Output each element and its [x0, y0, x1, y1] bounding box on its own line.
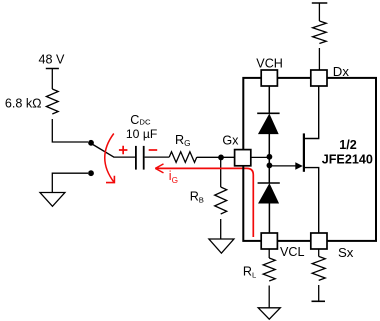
wire capacitor to RG — [145, 156, 170, 158]
svg-text:1/2: 1/2 — [339, 138, 357, 152]
JFET source lead — [304, 168, 319, 233]
svg-text:10 µF: 10 µF — [126, 127, 157, 141]
capacitor CDC right plate — [143, 146, 145, 170]
node switch upper contact dot — [88, 140, 94, 146]
wire Sx to resistor — [318, 249, 320, 256]
JFET drain lead — [304, 86, 319, 139]
svg-text:VCL: VCL — [280, 245, 305, 259]
wire VCH box to diode D1 — [268, 86, 270, 114]
wire resistor to switch node — [52, 119, 88, 142]
ground (RB) — [209, 239, 234, 253]
svg-text:JFE2140: JFE2140 — [322, 153, 373, 167]
wire D1 to gate node — [268, 134, 270, 183]
diode D1 cathode bar — [257, 112, 279, 114]
node switch lower contact dot — [88, 170, 94, 176]
node gate junction dot B — [267, 163, 273, 169]
wire RB to ground — [220, 219, 222, 239]
capacitor plus sign (red) — [119, 146, 128, 154]
resistor RG zigzag — [169, 152, 197, 163]
wire gate to JFET — [269, 165, 297, 167]
pin box Gx — [235, 150, 251, 166]
IC package rectangle 1/2 JFE2140 — [243, 78, 376, 241]
wire VCL to RL — [268, 249, 270, 258]
capacitor minus sign (red) — [149, 149, 158, 151]
red iG arrowhead — [155, 164, 163, 173]
diode D2 triangle — [259, 184, 278, 203]
wire top supply to Dx — [318, 3, 320, 21]
svg-text:6.8 kΩ: 6.8 kΩ — [5, 97, 42, 111]
node 48V rail T-bar — [46, 68, 59, 70]
node Gx junction dot — [218, 155, 224, 161]
svg-text:Sx: Sx — [338, 245, 354, 260]
wire resistor to Dx box — [318, 48, 320, 70]
transistor JFET channel bar — [303, 133, 305, 171]
svg-text:VCH: VCH — [256, 56, 283, 70]
wire lower contact to ground — [52, 173, 88, 192]
wire D2 to VCL box — [268, 203, 270, 233]
pin box Dx — [311, 70, 327, 86]
wire RG to Gx node — [197, 156, 235, 158]
wire 48V to resistor — [51, 69, 53, 90]
pin box VCH — [261, 70, 277, 86]
resistor 6.8k zigzag — [46, 89, 58, 114]
svg-text:Gx: Gx — [222, 134, 239, 148]
resistor top-right zigzag — [313, 21, 327, 44]
diode D1 triangle — [259, 115, 278, 134]
switch motion red arc arrow — [105, 134, 114, 183]
JFET gate arrowhead — [295, 162, 303, 170]
switch blade — [92, 144, 114, 157]
node gate junction dot A — [267, 154, 273, 160]
ground (switch) — [40, 193, 65, 207]
ground (RL) — [258, 308, 280, 319]
pin box Sx — [311, 233, 327, 249]
red iG current path — [155, 168, 253, 237]
ground reference bar (Sx) — [312, 300, 326, 302]
resistor Sx zigzag — [312, 256, 325, 280]
node top rail T-bar — [312, 2, 328, 4]
svg-text:Dx: Dx — [333, 64, 350, 79]
capacitor CDC left plate — [135, 146, 137, 170]
svg-text:48 V: 48 V — [39, 52, 66, 66]
wire resistor to reference bar — [318, 285, 320, 301]
resistor RL zigzag — [263, 258, 275, 281]
wire RL to ground — [268, 286, 270, 308]
wire Gx dot down to RB — [220, 157, 222, 187]
resistor RB zigzag — [215, 187, 227, 214]
diode D2 cathode bar — [258, 182, 280, 184]
wire Gx box to dot A — [251, 156, 270, 158]
pin box VCL — [261, 233, 277, 249]
wire switch to capacitor — [114, 156, 137, 158]
